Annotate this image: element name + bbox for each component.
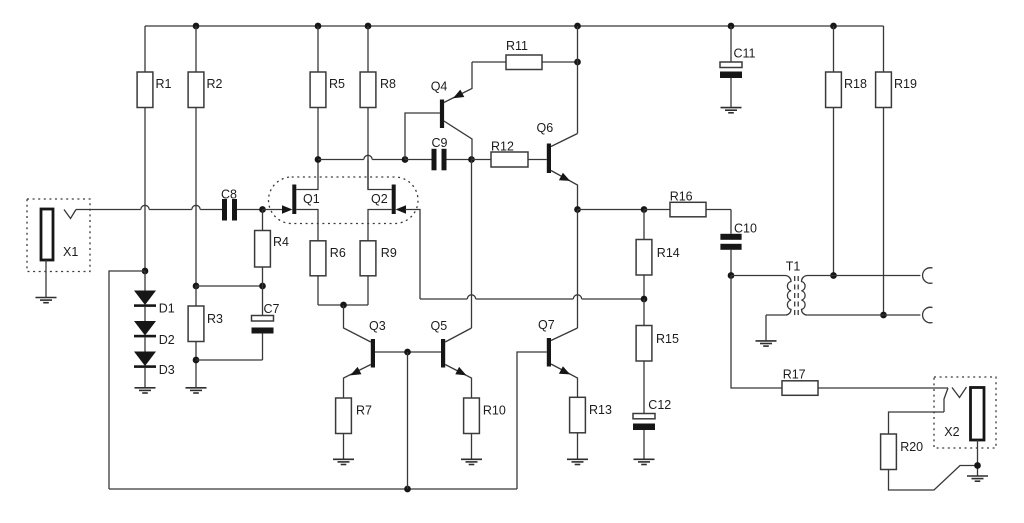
svg-text:T1: T1	[786, 260, 801, 274]
resistor R7	[336, 398, 372, 459]
wire Q1 gate lead	[263, 209, 284, 211]
capacitor C7	[252, 286, 280, 360]
wire R2 bottom to R3 node	[195, 108, 197, 287]
connector X2 output jack	[934, 377, 996, 476]
svg-text:Q4: Q4	[431, 80, 448, 94]
svg-text:Q5: Q5	[431, 319, 448, 333]
resistor R16	[644, 190, 731, 217]
wire bottom feedback rail	[109, 488, 517, 490]
transformer T1	[731, 260, 920, 341]
junction node R6/R9	[340, 302, 347, 309]
transistor Q3	[344, 319, 442, 398]
svg-text:R6: R6	[330, 246, 346, 260]
junction top rail at R8	[365, 23, 372, 30]
resistor R17	[782, 368, 948, 396]
ground below T1 primary	[756, 341, 777, 346]
transistor Q4	[431, 62, 472, 160]
capacitor C8	[221, 188, 263, 221]
ground below C11	[721, 108, 742, 113]
svg-text:R11: R11	[506, 39, 528, 53]
svg-text:R17: R17	[783, 368, 806, 382]
junction node R4/C7	[259, 283, 266, 290]
wire bases to bottom rail	[407, 352, 409, 489]
svg-text:D1: D1	[159, 302, 175, 316]
svg-text:R3: R3	[207, 312, 223, 326]
ground below R13	[567, 459, 588, 464]
resistor R20	[881, 412, 978, 490]
svg-text:R13: R13	[589, 403, 612, 417]
svg-text:R18: R18	[844, 77, 867, 91]
svg-text:R7: R7	[356, 404, 372, 418]
resistor R10	[464, 398, 506, 459]
output terminal bottom curl	[923, 307, 933, 323]
svg-text:R20: R20	[900, 440, 923, 454]
junction node C9/R12/Q4 collector/Q5 collector	[468, 156, 475, 163]
resistor R18	[826, 26, 867, 276]
wire Q6 emitter node to R16 node	[578, 209, 645, 211]
resistor R8	[360, 26, 396, 190]
wire node R3 to node C7	[196, 285, 263, 287]
ground below X2	[967, 476, 988, 481]
resistor R4	[255, 210, 289, 287]
junction node R14/R15/feedback	[641, 296, 648, 303]
wire R5 node to C9 with crossover hump over R8	[318, 155, 405, 159]
svg-text:R19: R19	[894, 77, 917, 91]
resistor R2	[188, 26, 222, 108]
resistor R12	[472, 140, 547, 168]
transistor Q6	[537, 121, 578, 210]
svg-text:R10: R10	[483, 404, 506, 418]
junction node R2/R3	[193, 283, 200, 290]
resistor R14	[636, 210, 680, 300]
junction node Q6 emitter / R16 / Q7 collector	[574, 206, 581, 213]
diode D2	[134, 307, 175, 347]
wire Q7 collector riser	[577, 210, 579, 329]
junction top rail at R2	[193, 23, 200, 30]
junction node R5/Q1 drain	[315, 156, 322, 163]
capacitor C11	[720, 26, 756, 108]
diode D1	[134, 271, 175, 316]
resistor R9	[360, 241, 397, 305]
resistor R15	[636, 299, 679, 414]
wire Q2 gate to feedback drop	[405, 210, 420, 300]
ground below R3	[186, 388, 207, 393]
svg-text:R5: R5	[329, 77, 345, 91]
svg-text:X2: X2	[944, 425, 959, 439]
svg-text:X1: X1	[63, 245, 78, 259]
resistor R5	[310, 26, 345, 160]
junction node R18/secondary top	[830, 272, 837, 279]
junction node R11/collector rail	[574, 59, 581, 66]
junction top rail at R18	[830, 23, 837, 30]
svg-text:C12: C12	[648, 398, 671, 412]
ground below R7	[333, 459, 354, 464]
svg-text:R14: R14	[657, 246, 680, 260]
junction node X2 sleeve/ground	[974, 462, 981, 469]
ground below C12	[634, 459, 655, 464]
svg-text:Q3: Q3	[369, 319, 386, 333]
resistor R19	[876, 26, 917, 315]
resistor R11	[472, 39, 578, 70]
wire R1 bottom to D1 node	[144, 108, 146, 272]
svg-text:C11: C11	[734, 47, 756, 61]
svg-text:R8: R8	[380, 77, 396, 91]
ground below R10	[461, 459, 482, 464]
junction node R19/secondary bottom	[880, 312, 887, 319]
junction node Q4 base / C9	[402, 156, 409, 163]
wire R6/R9 common source node	[318, 304, 368, 306]
svg-text:R12: R12	[491, 140, 514, 154]
svg-text:C9: C9	[432, 136, 448, 150]
transistor Q2 JFET	[368, 160, 406, 241]
svg-text:D3: D3	[159, 363, 175, 377]
svg-text:R1: R1	[156, 77, 172, 91]
junction top rail at R5	[315, 23, 322, 30]
svg-text:Q7: Q7	[538, 318, 555, 332]
junction node R3 bottom / C7 bottom	[193, 357, 200, 364]
junction node C8/R4/Q1 gate	[259, 206, 266, 213]
transistor Q7	[517, 318, 578, 489]
wire Q4 base lead	[405, 113, 440, 160]
resistor R6	[310, 241, 346, 305]
junction bottom rail at Q3/Q5 bases	[404, 486, 411, 493]
junction node R1/D1/feedback	[142, 268, 149, 275]
junction node Q3/Q5 bases	[404, 349, 411, 356]
junction top rail at node 577	[574, 23, 581, 30]
ground below D3	[135, 388, 156, 393]
resistor R3	[188, 286, 223, 388]
output terminal top curl	[923, 268, 933, 284]
svg-text:R2: R2	[207, 77, 223, 91]
svg-text:R9: R9	[381, 246, 397, 260]
dual JFET dotted outline	[269, 177, 419, 224]
wire source node to Q3 collector	[344, 305, 371, 342]
resistor R13	[570, 397, 612, 459]
wire C7 bottom to R3 bottom	[196, 359, 263, 361]
wire top supply rail	[145, 25, 884, 27]
wire C10 node down to R17	[731, 276, 782, 389]
junction node R14 top / R16	[641, 206, 648, 213]
connector X1 input jack	[27, 199, 90, 298]
svg-text:Q1: Q1	[303, 192, 320, 206]
transistor Q5	[431, 319, 472, 398]
svg-text:C10: C10	[734, 222, 757, 236]
wire input line X1 to C8 with crossover humps	[76, 205, 222, 209]
svg-text:Q2: Q2	[371, 192, 388, 206]
wire feedback left arm	[109, 271, 145, 489]
wire top rail to Q6 collector	[577, 26, 579, 134]
svg-text:D2: D2	[159, 333, 175, 347]
capacitor C9	[405, 136, 472, 170]
wire Q5 collector riser	[471, 160, 473, 329]
wire feedback to R14 node with crossover humps	[420, 295, 644, 299]
resistor R1	[137, 26, 171, 108]
svg-text:R16: R16	[670, 190, 693, 204]
svg-text:R15: R15	[656, 332, 679, 346]
ground below X1	[36, 298, 57, 303]
diode D3	[134, 337, 175, 387]
capacitor C12	[633, 398, 671, 459]
svg-text:C8: C8	[221, 188, 237, 202]
junction top rail at C11	[728, 23, 735, 30]
capacitor C10	[720, 210, 757, 276]
junction node C10/T1 primary/R17	[728, 272, 735, 279]
transistor Q1 JFET	[282, 160, 320, 241]
svg-text:C7: C7	[264, 302, 280, 316]
svg-text:Q6: Q6	[537, 121, 554, 135]
svg-text:R4: R4	[273, 235, 289, 249]
